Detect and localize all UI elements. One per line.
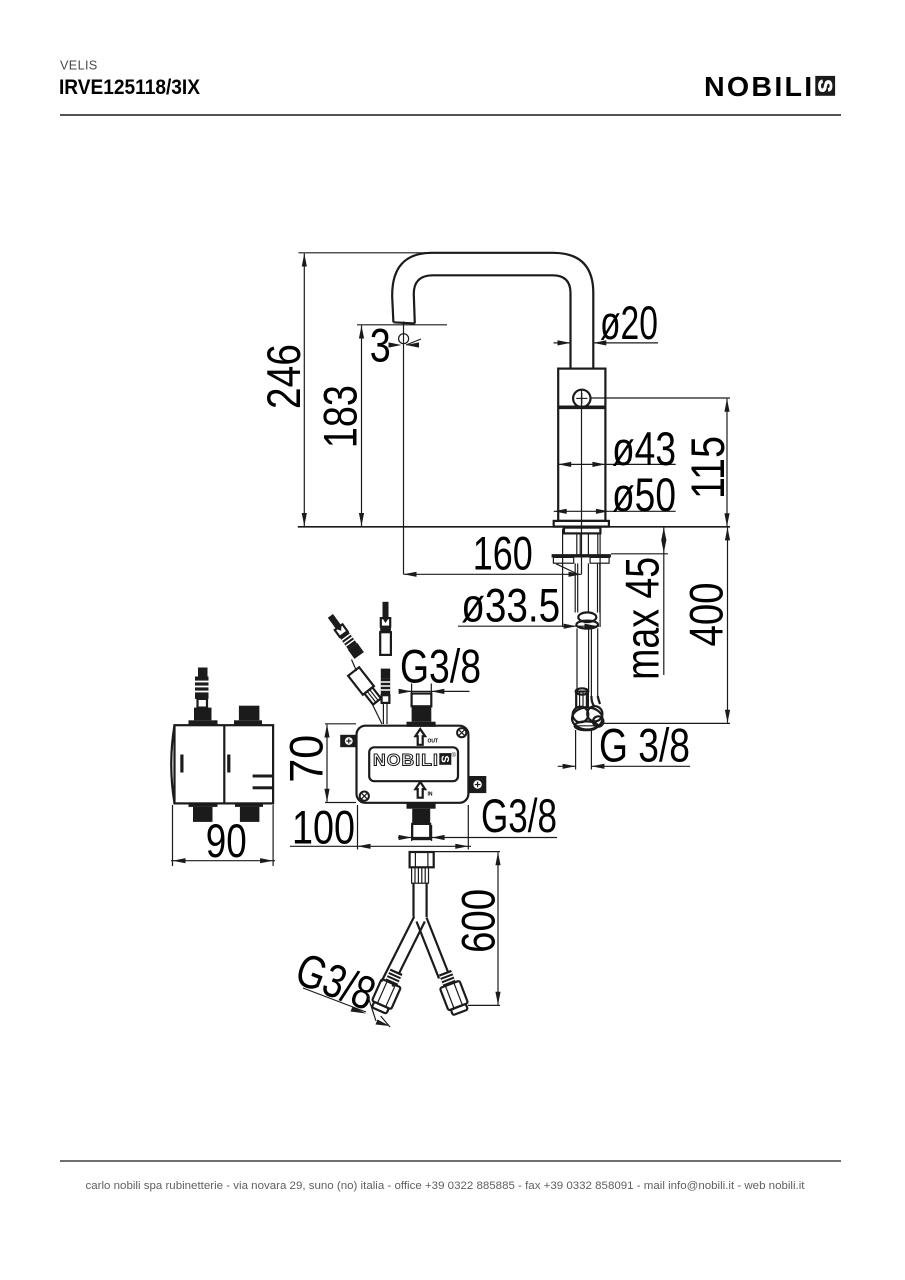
svg-text:S: S [814, 79, 836, 92]
svg-text:NOBILI: NOBILI [704, 71, 815, 102]
svg-text:IRVE125118/3IX: IRVE125118/3IX [59, 75, 201, 99]
svg-text:S: S [438, 755, 450, 762]
svg-text:400: 400 [680, 583, 733, 647]
svg-text:G3/8: G3/8 [481, 789, 557, 842]
svg-text:246: 246 [257, 344, 310, 409]
svg-text:3: 3 [370, 318, 391, 371]
svg-text:G 3/8: G 3/8 [599, 719, 690, 772]
svg-text:ø33.5: ø33.5 [461, 578, 560, 631]
svg-text:G3/8: G3/8 [400, 639, 481, 692]
svg-text:ø50: ø50 [612, 468, 676, 521]
svg-text:NOBILI: NOBILI [373, 752, 439, 770]
svg-text:OUT: OUT [428, 739, 439, 745]
svg-text:ø20: ø20 [600, 296, 658, 349]
svg-text:100: 100 [292, 801, 355, 854]
svg-text:160: 160 [473, 527, 533, 580]
svg-text:IN: IN [428, 792, 433, 798]
svg-text:carlo nobili spa rubinetterie: carlo nobili spa rubinetterie - via nova… [86, 1180, 806, 1192]
svg-text:183: 183 [313, 385, 366, 448]
svg-text:max 45: max 45 [616, 557, 669, 680]
svg-text:90: 90 [206, 814, 247, 867]
svg-text:600: 600 [451, 889, 504, 953]
svg-text:®: ® [452, 752, 457, 759]
svg-text:115: 115 [681, 436, 734, 499]
svg-text:70: 70 [280, 735, 333, 783]
svg-text:VELIS: VELIS [60, 59, 98, 73]
